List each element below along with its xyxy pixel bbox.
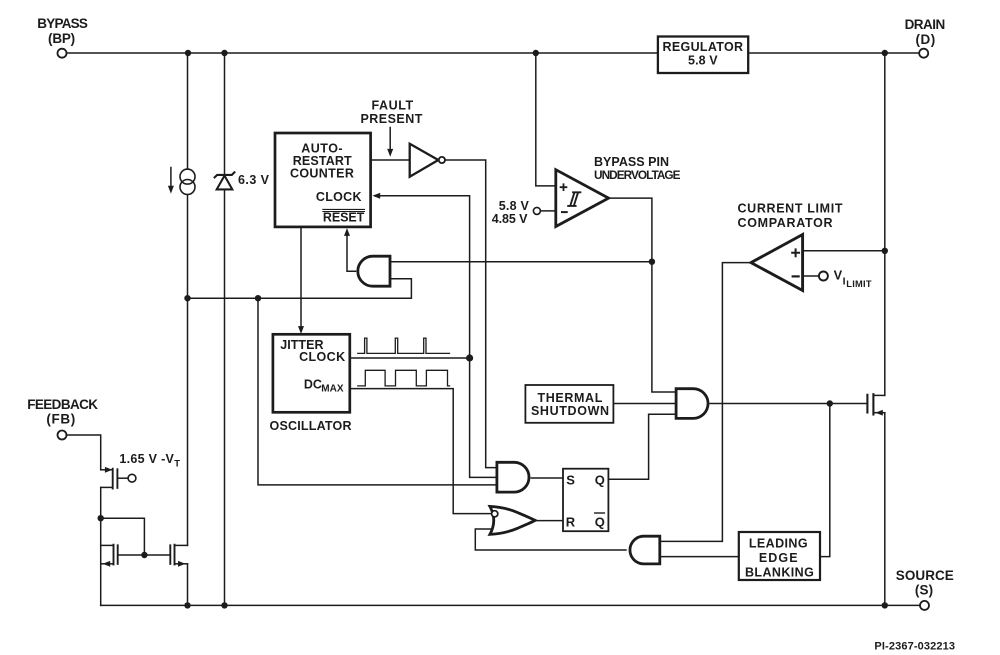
node BYPASS (BP) terminal xyxy=(37,16,88,58)
svg-text:REGULATOR: REGULATOR xyxy=(663,40,744,54)
svg-text:FAULT: FAULT xyxy=(371,99,413,113)
svg-text:DRAIN: DRAIN xyxy=(905,17,946,32)
wire thermal to and gate xyxy=(613,403,676,405)
svg-text:S: S xyxy=(566,473,575,488)
wire mirror fet right source down xyxy=(187,564,189,606)
wire gate drive output xyxy=(710,403,866,405)
svg-text:UNDERVOLTAGE: UNDERVOLTAGE xyxy=(594,168,681,182)
latch box S/R xyxy=(563,469,608,532)
svg-text:5.8 V: 5.8 V xyxy=(499,199,530,213)
svg-text:1.65 V -V: 1.65 V -V xyxy=(119,452,174,466)
svg-text:SHUTDOWN: SHUTDOWN xyxy=(531,404,609,418)
wire LEB to gate drive node xyxy=(820,404,830,557)
inverter fault present xyxy=(410,144,445,177)
node DRAIN (D) terminal xyxy=(905,17,946,58)
wire current limit output xyxy=(660,263,751,542)
transistor power mosfet xyxy=(867,394,884,415)
wire counter to inverter xyxy=(371,159,410,161)
svg-text:R: R xyxy=(566,514,576,529)
node SOURCE (S) terminal xyxy=(896,568,954,610)
wire reset gate input from undervoltage xyxy=(390,261,652,263)
wire regulator to drain xyxy=(748,52,919,54)
wire or gate lower input xyxy=(475,529,626,550)
wire clock feedback xyxy=(372,193,497,478)
svg-text:CURRENT LIMIT: CURRENT LIMIT xyxy=(738,202,843,216)
svg-text:COMPARATOR: COMPARATOR xyxy=(738,216,833,230)
current source symbol xyxy=(168,168,195,195)
wire current source to mirror xyxy=(187,195,189,546)
svg-text:SOURCE: SOURCE xyxy=(896,568,954,583)
node 5.8V/4.85V reference xyxy=(492,199,556,226)
wire bottom source rail xyxy=(101,604,921,606)
wire counter clock-out to oscillator xyxy=(298,227,304,334)
and gate S-input (3-input) xyxy=(497,462,529,492)
wire undervoltage output xyxy=(609,198,677,392)
wire latch Q to gatedrive and xyxy=(608,414,676,479)
svg-text:BYPASS PIN: BYPASS PIN xyxy=(594,155,669,169)
zener diode 6.3V xyxy=(215,172,270,189)
wire zener to source rail xyxy=(224,189,226,605)
svg-text:LEADING: LEADING xyxy=(749,537,808,551)
svg-text:V: V xyxy=(834,268,843,283)
wire oscillator clock output xyxy=(350,357,470,359)
svg-text:BYPASS: BYPASS xyxy=(37,16,88,31)
svg-text:(S): (S) xyxy=(915,583,933,598)
svg-text:4.85 V: 4.85 V xyxy=(492,212,528,226)
wire current limit plus input xyxy=(803,250,885,252)
svg-text:EDGE: EDGE xyxy=(759,551,798,565)
clock waveform xyxy=(358,338,450,353)
wire reset gate output to counter reset xyxy=(344,228,356,271)
wire oscillator dcmax output xyxy=(350,389,492,514)
svg-text:PRESENT: PRESENT xyxy=(360,112,422,126)
wire drain down to mosfet xyxy=(884,53,886,395)
wire feedback to sense fet xyxy=(66,435,100,470)
comparator bypass pin undervoltage xyxy=(556,155,681,227)
svg-text:T: T xyxy=(174,458,180,469)
svg-text:(BP): (BP) xyxy=(48,31,75,46)
node FAULT PRESENT xyxy=(360,99,422,157)
svg-text:FEEDBACK: FEEDBACK xyxy=(27,397,98,412)
svg-text:CLOCK: CLOCK xyxy=(299,350,345,364)
or gate R-input xyxy=(490,506,535,534)
comparator current limit xyxy=(738,202,843,291)
svg-text:MAX: MAX xyxy=(321,384,344,395)
svg-text:DC: DC xyxy=(304,378,322,392)
wire mirror gates xyxy=(118,554,171,556)
wire blanking gate input from LEB xyxy=(660,556,739,558)
dcmax waveform xyxy=(358,370,450,386)
wire mirror gate tie xyxy=(101,518,145,555)
wire or gate to latch R xyxy=(535,520,563,522)
and gate reset (2-input, output left) xyxy=(358,256,390,286)
node VILIMIT reference xyxy=(803,268,872,290)
svg-text:5.8 V: 5.8 V xyxy=(688,54,718,68)
and gate blanking (output left) xyxy=(630,536,660,564)
regulator box 5.8V xyxy=(658,37,748,74)
wire S gate to latch xyxy=(531,477,563,479)
wire current source branch xyxy=(187,53,189,169)
wire zener branch xyxy=(224,53,226,175)
oscillator box xyxy=(270,334,352,433)
svg-text:6.3 V: 6.3 V xyxy=(238,173,270,187)
wire undervoltage plus input xyxy=(536,53,556,186)
svg-text:COUNTER: COUNTER xyxy=(290,166,354,180)
svg-text:RESET: RESET xyxy=(323,211,365,225)
wire bp node to S-gate lower input xyxy=(258,298,497,485)
leading edge blanking box xyxy=(739,532,820,580)
svg-text:PI-2367-032213: PI-2367-032213 xyxy=(874,641,955,653)
wire inverter output to S-gate xyxy=(445,160,497,468)
wire mosfet source to rail xyxy=(884,413,886,606)
wire sense fet source down xyxy=(100,487,102,605)
svg-text:Q: Q xyxy=(595,514,605,529)
svg-text:I: I xyxy=(843,275,846,287)
and gate gatedrive (3-input) xyxy=(676,389,708,419)
svg-text:Q: Q xyxy=(595,473,605,488)
svg-text:THERMAL: THERMAL xyxy=(537,391,602,405)
transistor sense fet 1.65V-VT xyxy=(101,452,181,489)
svg-text:BLANKING: BLANKING xyxy=(745,566,814,580)
wire top bypass rail xyxy=(67,52,658,54)
svg-text:CLOCK: CLOCK xyxy=(316,190,362,204)
transistor mirror fet right xyxy=(170,545,187,567)
thermal shutdown box xyxy=(525,385,613,423)
node FEEDBACK (FB) terminal xyxy=(27,397,98,440)
auto-restart counter box xyxy=(275,133,371,227)
wire reset gate input from bp node xyxy=(188,279,412,298)
svg-text:(D): (D) xyxy=(916,32,936,47)
svg-text:(FB): (FB) xyxy=(46,411,75,426)
transistor mirror fet left xyxy=(101,545,118,567)
svg-text:LIMIT: LIMIT xyxy=(846,279,872,289)
svg-text:OSCILLATOR: OSCILLATOR xyxy=(270,419,352,433)
